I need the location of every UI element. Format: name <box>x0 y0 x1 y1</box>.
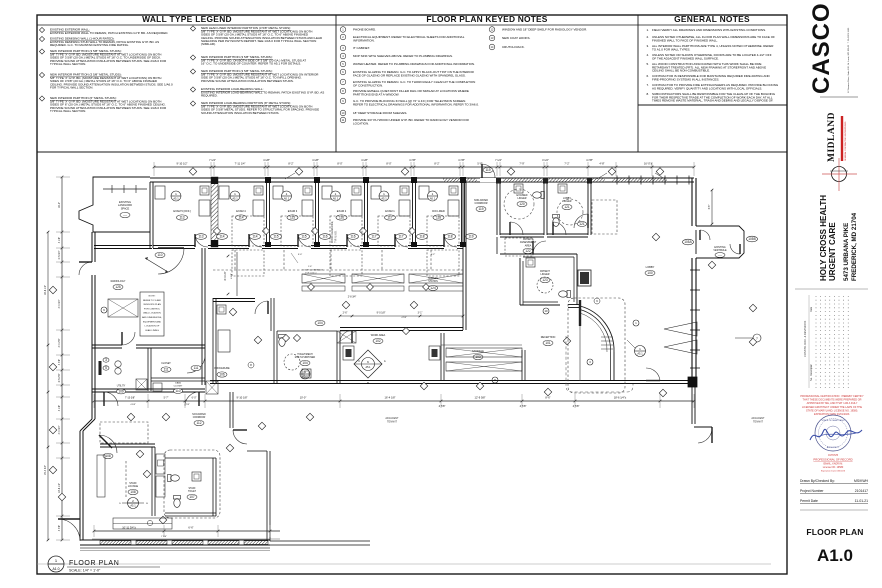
svg-text:No. Description: No. Description <box>810 363 813 381</box>
left dimension line <box>61 177 63 540</box>
svg-text:7'-9": 7'-9" <box>519 162 524 166</box>
svg-text:4 7/8": 4 7/8" <box>439 404 446 408</box>
svg-text:WORK AREA: WORK AREA <box>371 334 386 337</box>
svg-text:7 1/4": 7 1/4" <box>495 158 502 162</box>
svg-text:SPACE: SPACE <box>121 206 130 210</box>
svg-text:2.: 2. <box>646 35 649 39</box>
svg-text:PROCEDURE: PROCEDURE <box>214 367 230 370</box>
svg-text:4 1/8": 4 1/8" <box>231 273 233 279</box>
svg-text:12'-9 5/8": 12'-9 5/8" <box>475 396 486 400</box>
svg-text:9'-10 1/2": 9'-10 1/2" <box>177 162 188 166</box>
chamfer corner <box>80 419 92 431</box>
casework between lounge and toilet <box>156 454 165 474</box>
reception curved wall <box>568 304 580 306</box>
top keynote diamonds <box>189 168 197 176</box>
svg-text:APPROVED BY ME, AND THAT I AM: APPROVED BY ME, AND THAT I AM A DULY <box>807 402 858 405</box>
svg-text:107: 107 <box>189 495 195 499</box>
svg-text:4 1/8": 4 1/8" <box>312 158 319 162</box>
keyed/general divider <box>637 15 639 152</box>
svg-text:8'-2": 8'-2" <box>434 162 439 166</box>
svg-text:FLOOR PLAN: FLOOR PLAN <box>806 527 863 537</box>
svg-text:STATE OF MARYLAND, LICENSE NO.: STATE OF MARYLAND, LICENSE NO. 19580, <box>806 409 858 412</box>
svg-text:CASCO: CASCO <box>808 2 835 94</box>
svg-text:16" O.C. TO UNDERSIDE OF COUNT: 16" O.C. TO UNDERSIDE OF COUNTER. REFER … <box>201 62 301 66</box>
svg-text:RADIOLOGY: RADIOLOGY <box>111 280 126 283</box>
staff toilet 107 <box>165 457 216 459</box>
work area 102 <box>440 333 442 380</box>
svg-text:6.: 6. <box>646 74 649 78</box>
svg-text:PROFESSIONAL CERTIFICATION: I: PROFESSIONAL CERTIFICATION: I HEREBY CER… <box>800 395 864 398</box>
svg-text:WATER HEATER. REFER TO PLUMBIN: WATER HEATER. REFER TO PLUMBING DRAWINGS… <box>353 62 475 66</box>
lounge dashed line <box>125 461 127 497</box>
svg-text:11-01-21: 11-01-21 <box>855 499 868 503</box>
svg-text:10'-8 1/2": 10'-8 1/2" <box>58 483 61 493</box>
svg-text:EXISTING EXTERIOR WALL TO REMA: EXISTING EXTERIOR WALL TO REMAIN, PATCH … <box>50 31 168 35</box>
svg-text:109: 109 <box>118 390 124 394</box>
svg-text:A5.1: A5.1 <box>333 197 339 201</box>
svg-text:HOLY CROSS HEALTH: HOLY CROSS HEALTH <box>819 195 828 281</box>
svg-text:FOR CONTROL: FOR CONTROL <box>144 308 161 310</box>
architect seal <box>815 415 851 451</box>
svg-text:GENERAL CONTRACTING ENTERPRISE: GENERAL CONTRACTING ENTERPRISES <box>844 121 847 161</box>
svg-text:EXISTING INTERIOR LOAD-BEARING: EXISTING INTERIOR LOAD-BEARING WALL TO R… <box>201 90 324 94</box>
storefront detail triangles right side <box>664 322 697 336</box>
svg-text:3: 3 <box>105 358 107 362</box>
svg-text:DOOR CLEARANCE,: DOOR CLEARANCE, <box>331 220 334 243</box>
svg-text:8'-6": 8'-6" <box>545 396 550 400</box>
svg-text:FIELD VERIFY ALL DRAWINGS AND: FIELD VERIFY ALL DRAWINGS AND DIMENSIONS… <box>652 28 766 32</box>
svg-text:LOCATION OF: LOCATION OF <box>145 325 160 328</box>
svg-text:CONSTR. DOC. & REVISIONS: CONSTR. DOC. & REVISIONS <box>803 321 807 357</box>
svg-text:LICENSED ARCHITECT UNDER THE L: LICENSED ARCHITECT UNDER THE LAWS OF THE <box>802 406 862 409</box>
adjacent tenant dashed boundary <box>566 336 633 392</box>
svg-text:5473 URBANA PIKE: 5473 URBANA PIKE <box>843 223 850 281</box>
bottom exterior wall with storefront windows <box>80 539 270 541</box>
svg-text:16'-0"±: 16'-0"± <box>644 162 653 166</box>
svg-text:9'-10 1/8": 9'-10 1/8" <box>237 396 248 400</box>
svg-text:CLOSET: CLOSET <box>161 362 171 365</box>
small rooms block: closet/utility/data <box>147 348 149 391</box>
svg-text:5'-7": 5'-7" <box>164 397 169 400</box>
svg-text:8'-0": 8'-0" <box>337 162 342 166</box>
svg-text:118: 118 <box>419 235 424 239</box>
corridor 112 and staff area <box>229 392 231 428</box>
svg-text:STAFF: STAFF <box>188 487 196 490</box>
svg-text:TENANT: TENANT <box>753 421 763 424</box>
svg-text:3'-1": 3'-1" <box>418 312 423 315</box>
exam room fixtures <box>200 186 209 195</box>
svg-text:8.: 8. <box>646 92 649 96</box>
top dimension line <box>154 166 694 168</box>
svg-text:9'-0 1/8": 9'-0 1/8" <box>377 312 386 315</box>
svg-text:4'-4 3/4": 4'-4 3/4" <box>58 299 61 308</box>
svg-text:VESTIBULE: VESTIBULE <box>713 249 727 252</box>
procedure room <box>213 298 255 300</box>
svg-text:120: 120 <box>519 202 525 206</box>
svg-text:FOR TYPICAL WALL SECTION.: FOR TYPICAL WALL SECTION. <box>50 86 93 90</box>
svg-text:A5.1: A5.1 <box>366 366 372 369</box>
svg-text:A5.1: A5.1 <box>430 197 436 201</box>
svg-text:4.: 4. <box>646 53 649 57</box>
svg-text:119: 119 <box>478 207 483 211</box>
svg-text:CLOSET: CLOSET <box>174 386 183 388</box>
vestibule side dim <box>711 190 713 224</box>
svg-text:4 7/8": 4 7/8" <box>58 359 61 365</box>
svg-text:7 1/4": 7 1/4" <box>161 536 167 538</box>
svg-text:MULTI-PURPOSED: MULTI-PURPOSED <box>295 357 316 359</box>
svg-text:Date: Date <box>810 306 813 312</box>
door clearance dashed boxes <box>232 216 264 246</box>
nurses station casework <box>302 274 345 283</box>
inner bottom margin line <box>37 563 771 565</box>
svg-text:OF THE ADJACENT FINISHED WALL: OF THE ADJACENT FINISHED WALL SURFACE. <box>652 56 719 60</box>
svg-text:REFER TO X-RAY: REFER TO X-RAY <box>143 299 162 302</box>
svg-text:123: 123 <box>542 278 548 282</box>
svg-text:116: 116 <box>322 235 327 239</box>
svg-text:4'-8": 4'-8" <box>599 162 604 166</box>
svg-text:4 1/8": 4 1/8" <box>361 158 368 162</box>
compass circle symbol <box>832 167 847 182</box>
svg-text:License NO. 19580: License NO. 19580 <box>823 466 844 469</box>
svg-text:FACE OF GLAZING OR REPLACE EXI: FACE OF GLAZING OR REPLACE EXISTING GLAZ… <box>353 73 466 77</box>
svg-text:EQUIPMENT AND: EQUIPMENT AND <box>143 320 161 323</box>
svg-text:DOC-MED: DOC-MED <box>432 209 445 213</box>
svg-text:PROVIDE SOUND ATTENUATION INSU: PROVIDE SOUND ATTENUATION INSULATION BET… <box>201 79 294 83</box>
right exterior wall lower / storefront <box>691 258 693 382</box>
radiology door <box>122 332 135 345</box>
svg-text:104: 104 <box>317 321 323 325</box>
svg-text:AS REQUIRED. VERIFY QUANTITY A: AS REQUIRED. VERIFY QUANTITY AND LOCATIO… <box>652 86 762 90</box>
line under CASCO <box>820 96 858 98</box>
svg-text:7'-11 1/4": 7'-11 1/4" <box>235 162 246 166</box>
keyed notes column 1 <box>340 27 346 33</box>
svg-text:105A: 105A <box>684 240 692 244</box>
left exterior wall <box>91 232 93 262</box>
svg-text:4'-4 7/8": 4'-4 7/8" <box>58 338 61 347</box>
svg-text:NEW COAT HOOKS.: NEW COAT HOOKS. <box>502 36 531 40</box>
svg-text:3'-5 7/8": 3'-5 7/8" <box>58 373 61 382</box>
svg-text:TIMES REMOVE WASTE MATERIAL, T: TIMES REMOVE WASTE MATERIAL, TRASH AND D… <box>652 99 774 103</box>
svg-text:EXPIRATION DATE 03/01/2023.: EXPIRATION DATE 03/01/2023. <box>814 413 850 416</box>
svg-text:EXAM 4: EXAM 4 <box>236 209 246 213</box>
svg-text:7.: 7. <box>646 83 649 87</box>
transaction ladder <box>601 336 613 338</box>
svg-text:C: C <box>358 360 360 363</box>
svg-text:A5.1: A5.1 <box>232 197 238 201</box>
svg-text:3.: 3. <box>646 44 649 48</box>
svg-text:115: 115 <box>273 235 278 239</box>
exterior door arc SW <box>58 519 80 541</box>
svg-text:GENERAL NOTES: GENERAL NOTES <box>674 14 750 24</box>
svg-text:114: 114 <box>219 235 224 239</box>
svg-text:113: 113 <box>198 235 203 239</box>
title bar underline legend <box>37 24 336 26</box>
svg-text:119: 119 <box>468 235 473 239</box>
svg-text:114: 114 <box>252 235 257 239</box>
svg-text:URGENT CARE: URGENT CARE <box>828 222 837 281</box>
svg-text:TOILET/MECH: TOILET/MECH <box>297 354 313 356</box>
svg-text:4'-2": 4'-2" <box>431 254 436 256</box>
svg-text:FREDERICK, MD 21704: FREDERICK, MD 21704 <box>851 212 858 281</box>
svg-text:Project Number: Project Number <box>800 489 824 493</box>
svg-text:119: 119 <box>485 168 490 172</box>
svg-text:0179725: 0179725 <box>828 453 839 457</box>
svg-text:16'-2": 16'-2" <box>58 202 61 208</box>
svg-text:WALL LOCATION: WALL LOCATION <box>143 312 161 315</box>
outer left dimension line <box>47 232 49 540</box>
svg-text:A5.1: A5.1 <box>130 504 136 508</box>
svg-text:110: 110 <box>157 253 162 257</box>
svg-text:FIRE-PROOFING SYSTEMS IN ALL I: FIRE-PROOFING SYSTEMS IN ALL INSTANCES. <box>652 77 720 81</box>
svg-text:MS/KWH: MS/KWH <box>854 479 868 483</box>
patient linger toilet room 123 <box>520 254 577 305</box>
svg-text:RECEPTION: RECEPTION <box>541 336 556 339</box>
tenant dimension line <box>94 400 694 402</box>
svg-text:REFER TO ELECTRICAL DRAWINGS F: REFER TO ELECTRICAL DRAWINGS FOR ADDITIO… <box>353 102 479 106</box>
radiology room <box>92 344 122 346</box>
svg-text:4 1/8": 4 1/8" <box>263 158 270 162</box>
svg-text:121: 121 <box>579 222 585 226</box>
svg-text:10'-0": 10'-0" <box>300 396 307 400</box>
svg-text:115: 115 <box>301 235 306 239</box>
linger rooms 120 121 <box>496 178 501 184</box>
svg-text:116: 116 <box>350 235 355 239</box>
svg-text:102: 102 <box>375 339 381 343</box>
svg-text:TYP. U.N.O.: TYP. U.N.O. <box>336 230 338 243</box>
scattered keynote symbols <box>229 308 237 316</box>
svg-text:1.: 1. <box>646 28 649 32</box>
svg-text:EXAM 3: EXAM 3 <box>288 209 298 213</box>
svg-text:108: 108 <box>130 490 136 494</box>
svg-text:LEAD LINING: LEAD LINING <box>145 329 159 332</box>
wall type legend notes column 1 <box>39 27 44 32</box>
svg-text:4 7/8": 4 7/8" <box>409 158 416 162</box>
svg-text:106: 106 <box>219 373 225 377</box>
svg-text:EXAM 5 [OFF.]: EXAM 5 [OFF.] <box>173 209 191 213</box>
svg-text:CEILING SHALL BE NON-COMBUSTIB: CEILING SHALL BE NON-COMBUSTIBLE. <box>652 69 710 73</box>
svg-text:CORRIDOR: CORRIDOR <box>474 202 487 205</box>
existing vestibule <box>696 226 744 258</box>
svg-text:CRUTCH RACK.: CRUTCH RACK. <box>502 45 525 49</box>
svg-text:2'-5 3/4": 2'-5 3/4" <box>58 250 61 259</box>
svg-text:111: 111 <box>164 368 169 372</box>
toilet/mech multipurpose 104 <box>336 331 338 383</box>
svg-text:PHONE BOARD.: PHONE BOARD. <box>353 28 376 32</box>
svg-text:EXAM 1: EXAM 1 <box>385 209 395 213</box>
svg-text:125: 125 <box>115 285 121 289</box>
svg-text:124: 124 <box>430 286 436 290</box>
svg-text:WALL TYPE LEGEND: WALL TYPE LEGEND <box>142 14 232 24</box>
svg-text:4 7/8": 4 7/8" <box>586 158 593 162</box>
corridor north wall (exam rooms south wall) <box>153 245 195 247</box>
svg-text:DATA: DATA <box>175 382 181 385</box>
svg-text:5: 5 <box>105 366 107 370</box>
svg-text:INFORMATION.: INFORMATION. <box>353 38 375 42</box>
svg-text:5'-0": 5'-0" <box>298 254 303 256</box>
svg-text:NON-RATED: NON-RATED <box>192 413 206 416</box>
svg-text:TO A1.0 FOR WALL TYPES.: TO A1.0 FOR WALL TYPES. <box>652 47 691 51</box>
shaft black square <box>578 270 591 286</box>
corridor west wall + door <box>94 245 152 247</box>
svg-text:7'-10 3/8": 7'-10 3/8" <box>125 397 135 400</box>
storage east wall <box>521 350 523 381</box>
exam room doors <box>195 234 208 247</box>
svg-text:ARCHITECT: ARCHITECT <box>827 446 840 449</box>
suite entry door at top wall <box>480 178 497 182</box>
general notes box bottom <box>638 104 787 106</box>
left keynote diamonds <box>49 286 57 294</box>
svg-text:THAT THESE DOCUMENTS WERE PREP: THAT THESE DOCUMENTS WERE PREPARED OR <box>803 399 862 402</box>
svg-text:5.: 5. <box>646 62 649 66</box>
svg-text:4 7/8": 4 7/8" <box>401 317 407 319</box>
svg-text:15'-4 3/4": 15'-4 3/4" <box>44 465 47 475</box>
svg-text:EXAM 2: EXAM 2 <box>337 209 347 213</box>
svg-text:6'-6": 6'-6" <box>188 526 193 530</box>
right exterior wall upper <box>691 178 693 226</box>
svg-text:AREA: AREA <box>525 244 532 247</box>
svg-text:A1.0: A1.0 <box>53 567 60 571</box>
svg-text:----: ---- <box>123 213 127 217</box>
svg-text:2'-6": 2'-6" <box>343 312 348 315</box>
svg-text:8'-0": 8'-0" <box>386 162 391 166</box>
svg-text:Permit Date: Permit Date <box>800 499 818 503</box>
svg-text:2'-8 3/4": 2'-8 3/4" <box>348 297 357 299</box>
reception dashed boundary <box>568 298 625 393</box>
corridor vertical dimension <box>236 252 238 296</box>
wall type legend notes column 2 <box>190 26 195 31</box>
svg-text:MOP SINK WITH SHELVES ABOVE. R: MOP SINK WITH SHELVES ABOVE. REFER TO PL… <box>353 54 453 58</box>
svg-text:A5.1: A5.1 <box>637 352 643 356</box>
svg-text:100: 100 <box>647 271 653 275</box>
svg-text:PROFESSIONAL OF RECORD: PROFESSIONAL OF RECORD <box>813 458 852 462</box>
svg-text:6'-8": 6'-8" <box>709 205 711 210</box>
svg-text:SCALE: 1/4" = 1'-0": SCALE: 1/4" = 1'-0" <box>69 569 101 573</box>
svg-text:TYPICAL WALL SECTION.: TYPICAL WALL SECTION. <box>50 62 86 66</box>
svg-text:2101417: 2101417 <box>855 489 868 493</box>
legend/keyed divider <box>335 15 337 152</box>
svg-text:8'-2": 8'-2" <box>288 162 293 166</box>
existing hatched demising wall <box>211 177 218 247</box>
drawing title: floor plan <box>48 556 64 572</box>
svg-text:NURSES: NURSES <box>428 278 438 280</box>
svg-text:4 1/8": 4 1/8" <box>58 237 61 243</box>
svg-text:LOUNGE: LOUNGE <box>128 485 139 488</box>
svg-text:105B: 105B <box>748 237 755 241</box>
lobby door arc at demising wall <box>646 368 660 381</box>
svg-text:121: 121 <box>564 205 570 209</box>
svg-text:117: 117 <box>371 235 376 239</box>
svg-text:IT CABINET.: IT CABINET. <box>353 46 370 50</box>
west wall of exam 5 <box>149 182 151 248</box>
svg-text:10'-11 3/4"±: 10'-11 3/4"± <box>122 526 136 530</box>
svg-text:112: 112 <box>196 421 201 425</box>
storage top line <box>441 344 522 346</box>
svg-text:TYPICAL WALL SECTION.: TYPICAL WALL SECTION. <box>50 109 86 113</box>
svg-text:4 7/8": 4 7/8" <box>573 404 580 408</box>
radiology note box <box>140 292 164 336</box>
svg-text:113: 113 <box>179 216 184 220</box>
svg-text:AND DIMENSIONS,: AND DIMENSIONS, <box>142 316 162 319</box>
corridor dashed clearance lines <box>234 250 236 270</box>
svg-text:16'-4 1/8": 16'-4 1/8" <box>385 396 396 400</box>
casework in lounge bottom <box>113 518 172 529</box>
svg-text:5'-8": 5'-8" <box>477 162 482 166</box>
svg-text:REQUIRED. G.C. TO MAINTAIN EXI: REQUIRED. G.C. TO MAINTAIN EXISTING FIRE… <box>50 43 129 47</box>
svg-text:A5.1: A5.1 <box>381 197 387 201</box>
lounge door at chamfer <box>99 435 117 453</box>
demising wall to adjacent tenant <box>210 380 694 382</box>
svg-text:4'-4 3/4": 4'-4 3/4" <box>58 425 61 434</box>
svg-text:FLOOR PLAN KEYED NOTES: FLOOR PLAN KEYED NOTES <box>426 14 547 24</box>
svg-text:MIDLAND: MIDLAND <box>827 112 837 162</box>
svg-text:VENDOR'S PLAN: VENDOR'S PLAN <box>143 303 161 306</box>
svg-text:UTILITY: UTILITY <box>117 386 126 388</box>
svg-text:1'-6": 1'-6" <box>308 266 313 268</box>
svg-text:104: 104 <box>302 361 308 365</box>
svg-text:LINGER: LINGER <box>518 197 527 200</box>
svg-text:FLOOR PLAN: FLOOR PLAN <box>69 560 119 567</box>
column at demising wall end <box>688 377 697 387</box>
revisions table <box>795 288 868 290</box>
lounge west casework <box>97 455 105 497</box>
svg-text:A5.1: A5.1 <box>284 197 290 201</box>
corridor 119 walls <box>462 182 464 330</box>
svg-text:Drawn By/Checked By:: Drawn By/Checked By: <box>800 479 835 483</box>
svg-text:4 7/8": 4 7/8" <box>58 525 61 531</box>
svg-text:NOTE:: NOTE: <box>149 296 156 298</box>
work area top wall and dims <box>340 327 463 329</box>
corridor dashed box <box>100 422 148 443</box>
signature <box>810 429 862 440</box>
svg-text:4 7/8": 4 7/8" <box>520 404 527 408</box>
keyed notes column 2 <box>489 27 495 33</box>
svg-text:118: 118 <box>447 235 452 239</box>
svg-text:STATE OF MARYLAND: STATE OF MARYLAND <box>821 419 845 422</box>
svg-text:(SIMILAR).: (SIMILAR). <box>201 42 216 46</box>
existing landlord space outline <box>79 177 150 232</box>
svg-text:7'-2": 7'-2" <box>564 162 569 166</box>
doors below block <box>104 392 118 406</box>
svg-text:FINISHED WALL TO FACE OF FINIS: FINISHED WALL TO FACE OF FINISHED WALL. <box>652 38 718 42</box>
svg-text:4 1/8": 4 1/8" <box>58 405 61 411</box>
svg-text:7 1/4": 7 1/4" <box>209 158 216 162</box>
lower left exterior wall <box>79 431 81 540</box>
wall below lobby with door <box>691 387 693 424</box>
svg-text:A5.1: A5.1 <box>173 197 179 201</box>
svg-text:12 Sunnen Drive, Suite 100, St: 12 Sunnen Drive, Suite 100, St. Louis, M… <box>847 27 850 93</box>
MIDLAND red bar <box>841 116 843 161</box>
svg-text:18" DEEP STORAGE ROOM SHELVES.: 18" DEEP STORAGE ROOM SHELVES. <box>353 111 407 115</box>
utility door leaf on left wall <box>99 361 102 375</box>
svg-text:8'-3 1/8": 8'-3 1/8" <box>224 271 227 280</box>
svg-text:18'-8 1/2": 18'-8 1/2" <box>44 285 47 295</box>
svg-text:3 1/2": 3 1/2" <box>542 158 549 162</box>
svg-text:REQUIRED.: REQUIRED. <box>201 94 218 98</box>
svg-text:PARTITIONS END AT A WINDOW.: PARTITIONS END AT A WINDOW. <box>353 92 399 96</box>
svg-text:A1.0: A1.0 <box>817 546 853 565</box>
svg-text:TENANT: TENANT <box>387 421 397 424</box>
svg-text:4 1/8": 4 1/8" <box>130 404 136 406</box>
svg-text:LINGER: LINGER <box>541 273 550 276</box>
svg-text:CORRIDOR: CORRIDOR <box>193 417 206 419</box>
header band bottom line <box>37 151 787 153</box>
svg-text:LOCATION.: LOCATION. <box>353 121 369 125</box>
svg-text:4 7/8": 4 7/8" <box>458 158 465 162</box>
staff lounge dimension line <box>94 530 280 532</box>
landlord space shelving line <box>103 188 147 190</box>
existing storefront hatch segments on top wall <box>443 179 477 182</box>
svg-text:OF CONSTRUCTION.: OF CONSTRUCTION. <box>353 83 383 87</box>
